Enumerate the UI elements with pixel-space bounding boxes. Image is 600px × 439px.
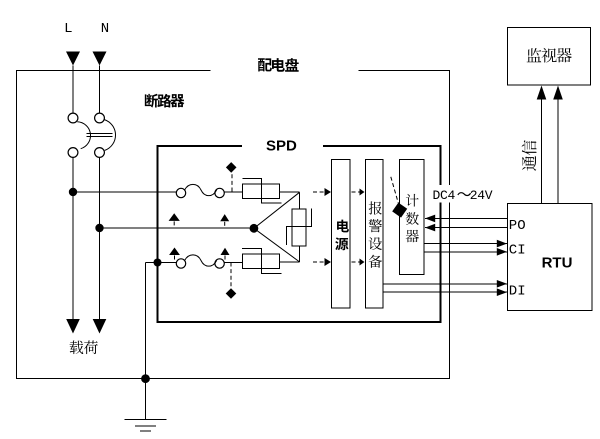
svg-text:N: N: [101, 21, 109, 37]
svg-text:DI: DI: [509, 284, 526, 300]
svg-text:L: L: [64, 21, 72, 37]
svg-text:PO: PO: [509, 218, 526, 234]
svg-text:RTU: RTU: [542, 254, 573, 271]
svg-text:DC4: DC4: [433, 188, 456, 203]
svg-text:24V: 24V: [470, 188, 493, 203]
svg-text:SPD: SPD: [266, 138, 297, 155]
svg-text:CI: CI: [509, 242, 526, 258]
